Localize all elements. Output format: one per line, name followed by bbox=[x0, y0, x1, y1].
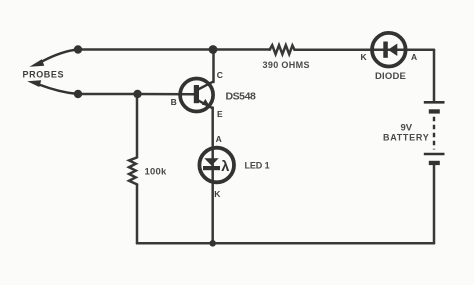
node: base / 100k junction bbox=[133, 90, 141, 98]
wire top rail: probe node to collector junction bbox=[78, 48, 213, 51]
svg-text:DS548: DS548 bbox=[226, 91, 256, 103]
svg-text:λ: λ bbox=[221, 159, 229, 175]
svg-text:K: K bbox=[214, 189, 221, 199]
wire left riser: bottom corner up to 100k resistor bbox=[136, 185, 139, 244]
wire battery - down to bottom-right corner bbox=[433, 165, 436, 244]
wire base rail: probe node to base junction bbox=[78, 93, 138, 96]
wire through diode to top-right corner bbox=[371, 48, 434, 51]
svg-text:390 OHMS: 390 OHMS bbox=[263, 60, 310, 70]
node: collector / top rail junction bbox=[209, 45, 218, 54]
svg-text:K: K bbox=[361, 52, 368, 62]
transistor Q1 DS548 bbox=[180, 79, 214, 112]
wire bottom rail: LED junction to left corner bbox=[137, 242, 213, 245]
svg-text:DIODE: DIODE bbox=[375, 71, 406, 82]
svg-text:A: A bbox=[411, 52, 417, 62]
node: LED / bottom rail junction bbox=[209, 240, 216, 247]
svg-text:BATTERY: BATTERY bbox=[383, 133, 429, 143]
wire collector: top rail down to transistor bbox=[212, 50, 215, 83]
wire emitter: transistor down through LED to bottom rail bbox=[211, 108, 214, 244]
diode D1 bbox=[372, 33, 406, 67]
svg-text:PROBES: PROBES bbox=[23, 70, 65, 80]
LED LED1 bbox=[199, 148, 234, 183]
resistor 390 OHMS zigzag bbox=[270, 45, 295, 54]
resistor 100k zigzag bbox=[129, 157, 137, 184]
svg-text:LED 1: LED 1 bbox=[245, 161, 270, 171]
wire base rail: junction to transistor base bbox=[138, 93, 195, 96]
svg-text:100k: 100k bbox=[145, 167, 167, 178]
probe lead top (arrow) bbox=[30, 50, 79, 67]
node: top probe junction bbox=[74, 45, 82, 53]
probe lead bottom (arrow) bbox=[27, 80, 78, 94]
battery B1 9V bbox=[424, 102, 445, 165]
wire left riser: 100k up to base junction bbox=[136, 94, 139, 157]
svg-text:B: B bbox=[171, 97, 177, 107]
wire top rail: resistor to diode bbox=[295, 48, 372, 51]
wire right rail down to battery + bbox=[433, 50, 436, 102]
svg-text:A: A bbox=[216, 134, 222, 144]
svg-text:E: E bbox=[217, 109, 223, 119]
node: bottom probe junction bbox=[74, 90, 82, 98]
svg-text:C: C bbox=[217, 70, 223, 80]
wire top rail: collector junction to resistor bbox=[213, 48, 270, 51]
wire bottom rail: right corner to LED junction bbox=[213, 242, 435, 245]
